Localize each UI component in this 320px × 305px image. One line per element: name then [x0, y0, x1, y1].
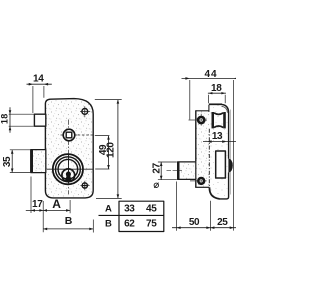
dim 120 (body height) [95, 100, 122, 199]
screw head top (side view) [189, 114, 208, 127]
side view case back fill [196, 111, 209, 187]
side view case outline [195, 110, 209, 187]
screw head bottom (side view) [190, 177, 207, 185]
svg-text:120: 120 [106, 142, 117, 158]
bolt (front view) [31, 150, 46, 173]
svg-text:14: 14 [33, 73, 44, 84]
svg-text:B: B [105, 218, 112, 229]
dim 17 and A (bottom of front view) [26, 177, 70, 233]
svg-text:18: 18 [211, 83, 222, 94]
dims 50 and 25 (bottom of side view) [172, 182, 236, 231]
svg-text:62: 62 [124, 219, 135, 230]
latch L1 (front view) [34, 114, 45, 126]
table of A/B values [99, 201, 164, 231]
dim diameter 27 (cylinder diameter) [152, 162, 177, 188]
dim 14 (latch protrusion) [27, 73, 52, 113]
cylinder vertical crosshair [68, 155, 70, 183]
svg-text:50: 50 [189, 217, 200, 228]
dim 18 (faceplate width, side view) [208, 83, 226, 103]
cylinder protrusion (side view) [167, 162, 196, 180]
svg-text:17: 17 [32, 199, 43, 210]
side view faceplate outline [209, 104, 231, 199]
svg-text:27: 27 [152, 162, 163, 173]
cylinder (front view) concentric rings [53, 154, 83, 184]
center line (vertical axis front view) [68, 120, 70, 195]
svg-text:33: 33 [124, 204, 135, 215]
side view faceplate fill [209, 105, 228, 199]
svg-text:13: 13 [212, 131, 223, 142]
svg-text:75: 75 [146, 219, 157, 230]
screw hole bottom-right (front) [80, 181, 89, 190]
svg-text:18: 18 [0, 113, 9, 124]
svg-text:A: A [52, 197, 61, 211]
dim 13 (latch width, side view) [203, 131, 236, 143]
bolt (side view) [216, 151, 226, 178]
svg-text:B: B [65, 215, 73, 227]
dim B (body width) [43, 215, 93, 233]
svg-text:45: 45 [146, 204, 157, 215]
svg-text:35: 35 [2, 156, 13, 167]
svg-text:A: A [105, 203, 112, 214]
dim 18 (latch height) [0, 107, 34, 133]
dim 49 (square hole to cylinder axis) [95, 136, 110, 169]
bolt face thick band [30, 149, 33, 173]
screw hole top-right (front) [80, 106, 90, 117]
bump on right edge (cylinder fixing) [228, 158, 232, 173]
square spindle hole (front) [61, 129, 94, 141]
cylinder horizontal crosshair [47, 168, 93, 170]
svg-text:25: 25 [217, 217, 228, 228]
keyhole [65, 172, 72, 181]
front view lock body [45, 99, 93, 198]
dim 35 (bolt height) [2, 150, 30, 173]
dim 44 (total depth, top of side view) [182, 69, 239, 230]
svg-text:44: 44 [205, 69, 218, 80]
latch roller spool (side view) [212, 112, 226, 128]
